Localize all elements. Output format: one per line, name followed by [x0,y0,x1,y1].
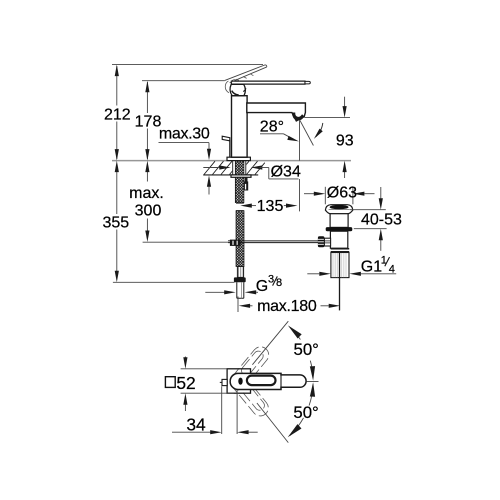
cartridge dot [238,378,242,385]
svg-text:93: 93 [336,133,354,150]
drain tailpiece (threaded) [331,253,349,278]
lower 50deg arc [309,385,313,406]
lever slot [247,376,276,386]
raised handle boss outline (thin alt position) [225,81,229,93]
pop-up rod nub left of square [222,379,227,385]
ext line max.300 bottom (rod level) [143,241,228,243]
body grooves [331,248,350,250]
swing angle upper diagonal [252,321,288,365]
white mask over hatch at faucet hole [232,160,246,175]
hose break tick bottom [236,210,244,212]
ext line spout outlet level (93 top) [305,117,351,119]
dimension 34 [172,431,211,433]
escutcheon base plate [227,157,250,160]
drain upper body [330,214,348,228]
lever axis extension line [307,381,319,383]
rotated lever outline +50deg (alt position) [227,344,272,394]
G3/8 nut [234,277,246,282]
horizontal pop-up linkage rod [228,240,325,242]
threaded shank below washer (cross-hatched) [235,177,244,202]
deck hole walls [232,161,234,175]
O-ring seal [326,227,353,231]
svg-text:178: 178 [135,113,162,130]
dimension 34 ext lines [221,386,223,434]
threaded shank through deck (cross-hatched) [235,161,244,175]
tail centerline / waste pipe [339,253,341,310]
svg-text:Ø63: Ø63 [327,185,357,202]
svg-text:G1: G1 [361,258,382,275]
svg-text:max.30: max.30 [159,126,210,143]
svg-text:max.180: max.180 [257,298,317,315]
label square 52 [165,377,175,388]
deck bottom line [203,174,258,176]
horizontal lever bar [231,81,305,84]
svg-text:355: 355 [102,214,129,231]
svg-text:135: 135 [257,198,284,215]
square 52 arrows [184,357,186,361]
rotated lever outline -50deg (alt position) [227,370,272,420]
Ø63 extension lines [324,187,326,205]
knob connector [324,238,330,246]
Ø34 label [268,168,270,179]
svg-text:52: 52 [176,373,195,393]
dimension 178 [146,82,148,159]
svg-text:28°: 28° [260,118,284,135]
ext line 212 (to raised lever tip) [112,64,263,66]
spout arm [247,103,306,121]
dimension 40-53 [350,209,386,211]
max.30 leader arrow to deck top [208,143,210,152]
G1 1/4 arrows [307,273,319,275]
dimension 212 [116,66,118,159]
deck cross-section hatching [204,161,265,174]
svg-text:212: 212 [104,106,131,123]
body square (top view) [227,369,250,393]
svg-text:8: 8 [276,277,282,289]
braided flex hose (cross-hatched) [236,211,244,267]
deck top surface line [112,160,351,162]
pop-up rod knob behind body [229,141,231,158]
square dimension ext lines [181,368,228,370]
Ø34 dimension arrows at deck hole [203,167,221,169]
handle boss (lever in horizontal position) [230,84,245,95]
dimension 135 [252,205,257,207]
spout outlet extension line (down to deck and below) [299,120,301,160]
ext line 178 (to raised lever root) [142,80,225,82]
lever bar tip [305,81,310,84]
svg-text:34: 34 [186,414,206,434]
pop-up rod guide fitting right of shank [245,178,248,182]
swing angle lower diagonal [257,403,288,443]
pop-up plug (dark top) [330,205,349,209]
rod knob (knurled) [318,236,325,247]
ext line 355 bottom (hose nut level) [113,281,235,283]
hose crimp sleeve [237,267,243,278]
drain flange [325,205,352,214]
dimension 93 [344,97,346,109]
dimension max.180 [250,305,253,307]
raised lever (thin alt position) [225,65,267,83]
28 degree slanted line [300,120,314,145]
upper 50deg arc [290,328,300,340]
max.30 arrow below deck [208,184,210,195]
hose break tick top [236,202,244,204]
dimension 355 [116,170,118,274]
svg-text:50°: 50° [293,403,318,422]
Ø63 dimension arrows [304,193,314,195]
aerator outlet crescent [292,113,304,120]
dimension max.300 [146,170,148,233]
svg-text:300: 300 [135,203,162,220]
svg-text:max.: max. [129,185,164,202]
lever (top view, solid) [230,373,306,389]
left ext for max.180 [237,297,239,313]
G3/8 connection pipe [237,282,244,298]
boss shadow curve [232,91,239,95]
svg-text:Ø34: Ø34 [271,164,301,181]
faucet body [232,96,248,158]
svg-text:40-53: 40-53 [361,211,402,228]
drain lower body [330,231,347,248]
G3/8 arrows [205,291,224,293]
mounting washer under deck [231,175,251,177]
rod clevis fitting at hose [230,240,241,246]
svg-text:50°: 50° [294,340,319,359]
28 degree arc with arrow [316,123,323,137]
